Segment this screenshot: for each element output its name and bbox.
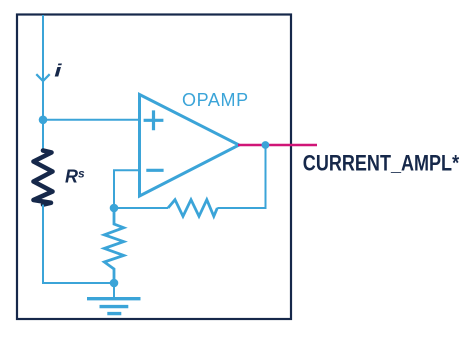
node C (output)	[262, 141, 270, 149]
svg-text:OPAMP: OPAMP	[182, 90, 249, 110]
wire: left input vertical (top)	[42, 15, 44, 150]
resistor R s (sense resistor)	[34, 151, 53, 205]
node A (non-inverting input junction)	[39, 116, 48, 125]
wire: output (magenta)	[238, 144, 317, 146]
wire: ground stem	[113, 283, 115, 298]
wire: bottom horizontal to ground node	[42, 282, 114, 284]
node D (ground junction)	[110, 279, 119, 288]
wire: node A to op-amp + input	[43, 119, 140, 121]
svg-text:i: i	[54, 60, 62, 80]
circuit block outline	[17, 15, 291, 320]
op-amp + input symbol	[144, 110, 164, 130]
svg-text:Rs: Rs	[65, 167, 85, 187]
op-amp - input symbol	[146, 169, 163, 172]
feedback resistor	[168, 200, 217, 217]
op-amp U1	[140, 95, 240, 197]
wire: left vertical below resistor	[42, 205, 44, 284]
wire: node B to feedback resistor	[114, 207, 168, 209]
wire: inverting input	[114, 170, 140, 208]
resistor to ground	[104, 208, 123, 283]
wire: feedback resistor to output node	[217, 145, 265, 208]
svg-text:CURRENT_AMPL*: CURRENT_AMPL*	[303, 152, 459, 176]
current arrow	[36, 74, 49, 81]
ground	[87, 299, 141, 314]
node B (inverting input junction)	[110, 204, 119, 213]
